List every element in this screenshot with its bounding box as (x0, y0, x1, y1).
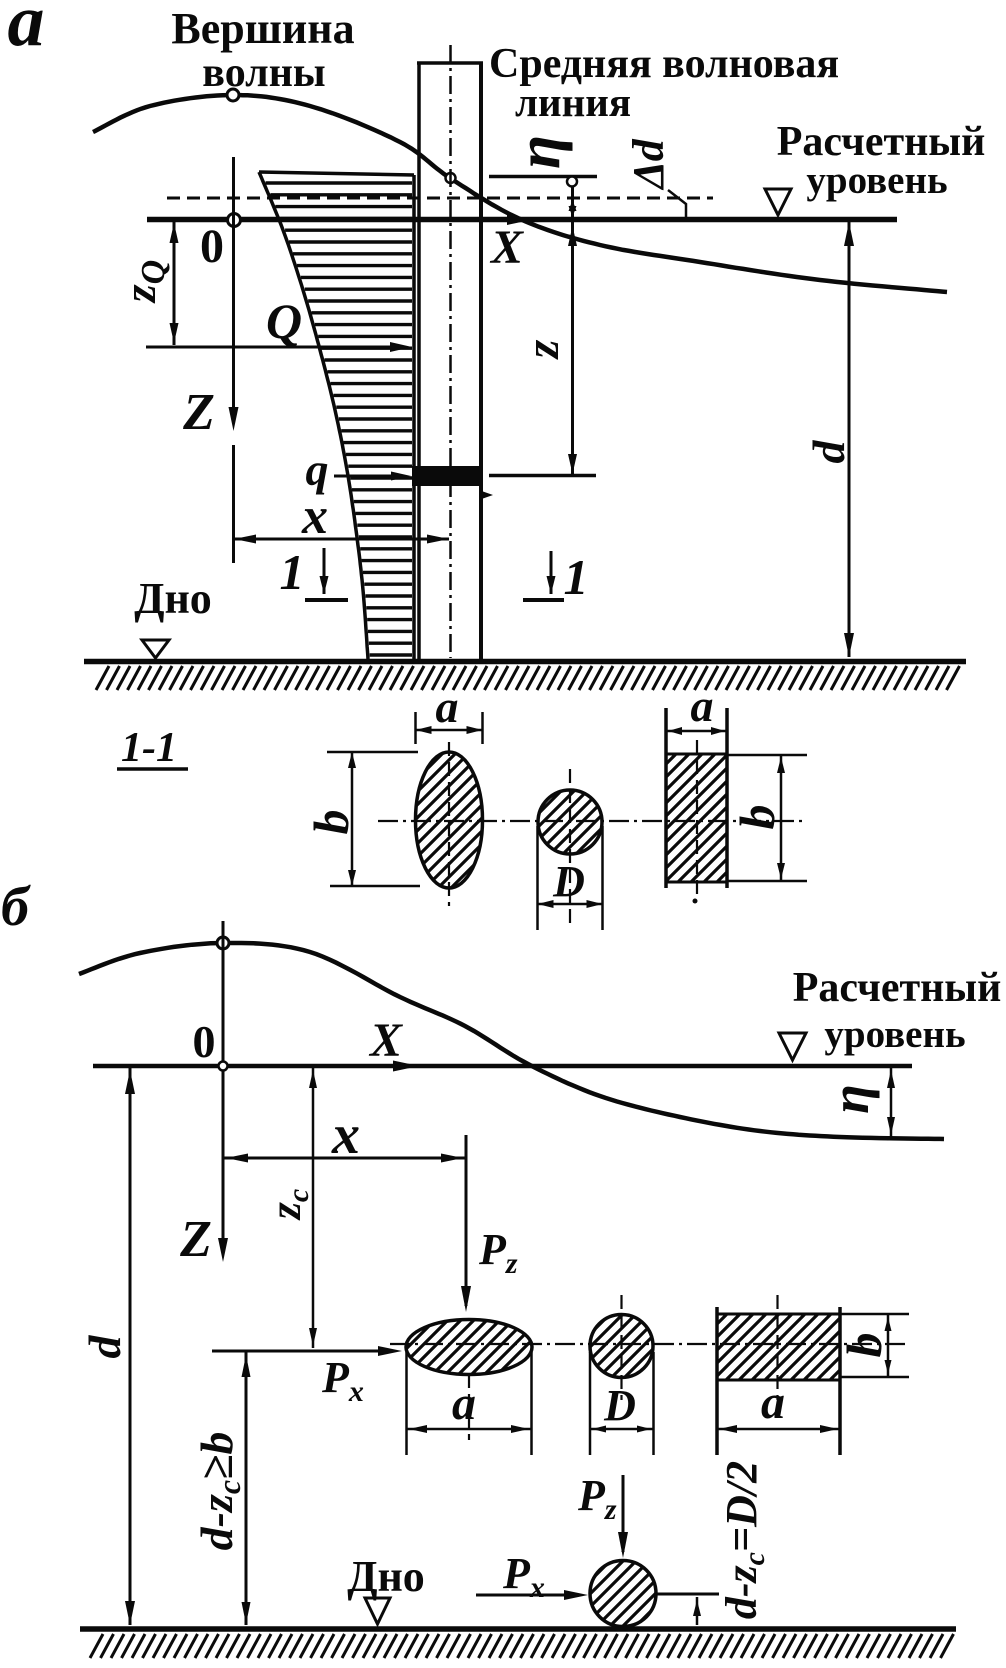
load q arrow (334, 475, 399, 478)
Z axis extension below arrow (232, 445, 235, 563)
svg-text:1: 1 (280, 544, 305, 600)
section row horizontal centerline (378, 820, 806, 822)
svg-text:x: x (331, 1104, 360, 1166)
bottom marker triangle (б) (365, 1598, 390, 1624)
dimension line z_Q (173, 221, 176, 345)
cross-section ellipse (б) (406, 1320, 532, 1375)
pile left edge (417, 63, 421, 659)
circle vertical centerline (569, 769, 571, 926)
rectangle side lines (б) (715, 1307, 719, 1455)
dim b ellipse ext lines (327, 751, 418, 754)
dim D line (б) (590, 1428, 654, 1431)
origin circle 0 (a) (228, 214, 241, 227)
z dim bottom arrow (568, 454, 577, 474)
wave/pile intersection circle (446, 173, 456, 183)
svg-text:a: a (8, 0, 45, 62)
bottom marker triangle (a) (142, 640, 169, 658)
dimension z_c (б) (312, 1066, 315, 1348)
sea bottom line (б) (80, 1626, 956, 1632)
svg-text:X: X (489, 221, 524, 274)
cross-section circle (б) (590, 1315, 653, 1378)
z dim top arrow (568, 226, 577, 246)
svg-text:Z: Z (179, 1211, 212, 1268)
dim D (б) ext lines (589, 1352, 592, 1455)
svg-text:Pz: Pz (478, 1225, 518, 1280)
dim D/2 (696, 1597, 699, 1625)
dimension x (б) (223, 1157, 466, 1160)
wave surface tick line at pile (489, 175, 597, 179)
svg-text:линия: линия (515, 79, 631, 125)
rectangle side lines (664, 708, 668, 888)
ellipse centerline below (б) (468, 1374, 470, 1440)
mean wave line (dashed) (167, 197, 713, 200)
q level line right of pile (489, 474, 596, 478)
pile top edge (417, 61, 483, 65)
svg-text:a: a (452, 1377, 476, 1430)
force P_z line (б bottom) (622, 1475, 625, 1552)
svg-text:b: b (836, 1333, 892, 1358)
svg-text:0: 0 (200, 220, 224, 273)
svg-text:1: 1 (564, 549, 589, 605)
node circle on z line (567, 177, 577, 187)
design level line / X axis (a) (147, 217, 897, 223)
svg-text:Pz: Pz (577, 1471, 617, 1526)
dim b ellipse (351, 752, 354, 886)
pressure diagram outline (259, 172, 368, 659)
svg-text:d: d (803, 440, 854, 464)
svg-text:D: D (552, 857, 585, 906)
sea bottom hatching (б) (90, 1634, 954, 1658)
dimension line x (a) (234, 538, 449, 541)
svg-text:Δd: Δd (624, 138, 673, 191)
X axis arrowhead (б) (393, 1061, 419, 1072)
dim b rect ext lines (727, 754, 807, 757)
Z axis (б) (222, 921, 225, 1245)
dim a rect (666, 730, 727, 733)
svg-text:уровень: уровень (806, 159, 947, 202)
dim b rect (б) ext lines (840, 1313, 909, 1316)
dimension line d (a) (848, 222, 851, 657)
wave profile curve (a) (93, 95, 947, 292)
dim b rect (б) (887, 1314, 890, 1377)
dim a ellipse (б) (407, 1428, 532, 1431)
eta dim arrows (diamond) (569, 200, 577, 211)
svg-text:б: б (1, 876, 31, 938)
section mark 1 (left) (323, 548, 326, 594)
svg-text:D: D (603, 1381, 636, 1430)
cross-section circle (538, 790, 602, 854)
dimension d-z_c>=b (245, 1351, 248, 1625)
svg-text:b: b (303, 810, 359, 835)
svg-text:a: a (761, 1376, 785, 1429)
line right of bottom circle (656, 1593, 719, 1596)
sea bottom line (a) (84, 659, 966, 665)
dim a ellipse ext lines (414, 712, 417, 744)
Q level line with arrow (146, 346, 404, 349)
svg-text:η: η (820, 1084, 880, 1114)
svg-text:волны: волны (202, 50, 325, 96)
svg-text:Px: Px (502, 1549, 545, 1604)
svg-text:zQ: zQ (114, 260, 172, 304)
rect centerline (б) (776, 1295, 778, 1400)
circle centerline (б) (620, 1295, 622, 1400)
Delta-d leader line (668, 190, 686, 217)
svg-text:Px: Px (321, 1353, 364, 1408)
ellipse vertical centerline (448, 742, 450, 906)
dim a ellipse (б) ext lines (405, 1352, 408, 1455)
svg-text:η: η (505, 135, 573, 169)
svg-text:a: a (436, 681, 459, 732)
svg-text:b: b (729, 805, 785, 830)
design level line / X axis (б) (93, 1064, 912, 1069)
svg-text:Расчетный: Расчетный (793, 965, 1002, 1011)
small arrow right of pile (483, 492, 493, 499)
svg-text:d-zc=D/2: d-zc=D/2 (717, 1461, 771, 1619)
svg-text:0: 0 (193, 1016, 216, 1067)
svg-text:x: x (301, 488, 328, 545)
svg-text:Q: Q (266, 293, 302, 349)
svg-text:z: z (516, 339, 569, 360)
pile centerline (dash-dot) (449, 45, 452, 658)
dim D ext lines (536, 826, 539, 930)
X axis arrowhead (a) (507, 214, 533, 225)
Z axis (a) (232, 157, 235, 414)
svg-text:1-1: 1-1 (121, 725, 177, 771)
origin circle (б) (219, 1062, 228, 1071)
wave profile curve (б) (79, 943, 944, 1139)
dim a rect (б) (717, 1428, 840, 1431)
rect vertical centerline (696, 740, 698, 898)
cross-section rectangle (б) (717, 1314, 840, 1380)
svg-text:Вершина: Вершина (171, 4, 354, 53)
level marker triangle (a) (765, 189, 791, 215)
dimension eta (б) (890, 1066, 893, 1137)
sea bottom hatching (a) (96, 666, 960, 690)
svg-text:X: X (368, 1014, 403, 1067)
wave crest marker circle (a) (227, 89, 239, 101)
svg-text:Дно: Дно (134, 574, 212, 623)
force P_x line (б mid) (212, 1350, 394, 1353)
z dimension line (571, 186, 574, 474)
level marker triangle (б) (779, 1033, 806, 1060)
svg-text:Дно: Дно (347, 1552, 425, 1601)
dim a ellipse (416, 729, 483, 732)
dim b rect (780, 755, 783, 881)
svg-text:уровень: уровень (824, 1013, 965, 1056)
pressure diagram horizontal hatch (266, 183, 412, 655)
svg-text:d-zc≥b: d-zc≥b (191, 1432, 247, 1551)
elemental load strip (black band) (412, 466, 483, 486)
pile right edge (479, 63, 483, 659)
cross-section rectangle (666, 754, 727, 882)
bottom circle on seabed (590, 1561, 656, 1627)
force P_x line (б bottom) (476, 1594, 581, 1597)
dim D (538, 903, 603, 906)
svg-text:zc: zc (261, 1189, 315, 1221)
svg-text:a: a (691, 680, 714, 731)
dimension d (б) (129, 1066, 132, 1625)
force P_z line (б mid) (465, 1135, 468, 1306)
wave crest marker circle (б) (217, 937, 229, 949)
svg-text:Z: Z (182, 384, 215, 441)
row centerline (б, dash-dot) (390, 1343, 909, 1345)
section mark 1 (right) (550, 551, 553, 594)
cross-section ellipse (416, 752, 483, 888)
svg-text:d: d (79, 1335, 130, 1359)
